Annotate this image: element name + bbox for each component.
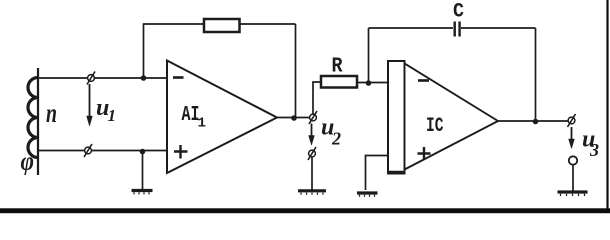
node u1 label xyxy=(96,95,116,125)
svg-text:φ: φ xyxy=(21,147,35,176)
wire u2 bottom to ground xyxy=(311,158,313,190)
svg-text:1: 1 xyxy=(108,106,117,125)
terminal T4 (node u2 bottom) xyxy=(308,147,316,160)
terminal u3 open circle xyxy=(569,156,577,164)
wire u3 to ground xyxy=(572,165,574,191)
wire cap feedback left vertical xyxy=(368,28,370,83)
op-amp U1 AI1 xyxy=(167,61,277,174)
ground G2 (u2) xyxy=(298,191,326,195)
wire AI1 output xyxy=(277,117,310,119)
op-amp U1 label AI1 xyxy=(182,104,206,132)
wire R to IC minus input xyxy=(357,82,388,84)
junction dot D3 (feedback to output) xyxy=(291,115,297,121)
wire u2 node up to R xyxy=(313,82,321,114)
svg-text:2: 2 xyxy=(331,129,341,149)
junction dot D2 (plus input / ground tap) xyxy=(140,149,146,155)
arrow u3 (voltage arrow down) xyxy=(569,127,575,149)
junction dot D4 (cap feedback tap) xyxy=(366,80,372,86)
wire IC plus input xyxy=(366,156,389,191)
wire top input (coil to AI1 minus) xyxy=(38,77,167,79)
svg-text:C: C xyxy=(453,1,464,24)
junction dot D1 (minus input / feedback) xyxy=(141,75,147,81)
ground G4 (u3) xyxy=(558,192,588,196)
wire feedback top left xyxy=(143,23,204,25)
inductor L1 (coil n) xyxy=(28,68,38,175)
wire cap feedback right vertical xyxy=(535,28,537,122)
terminal T5 (node u3) xyxy=(568,114,576,127)
node u2 label xyxy=(321,115,341,149)
svg-text:IC: IC xyxy=(426,115,444,138)
wire IC output xyxy=(498,120,568,122)
svg-text:n: n xyxy=(46,98,57,128)
wire feedback left vertical xyxy=(143,24,145,78)
ground G1 xyxy=(132,191,153,195)
terminal T2 on bottom input xyxy=(84,144,92,157)
op-amp U2 IC triangle xyxy=(405,64,499,170)
junction dot D5 (cap feedback to output) xyxy=(533,119,539,125)
ground G3 (IC plus) xyxy=(357,193,378,197)
arrow u1 (voltage arrow down) xyxy=(87,84,93,126)
wire cap feedback top right xyxy=(461,27,536,29)
svg-text:3: 3 xyxy=(589,140,599,160)
node u3 label xyxy=(582,127,599,161)
resistor R1 (feedback of AI1) xyxy=(204,19,240,32)
arrow u2 (voltage arrow down) xyxy=(309,124,315,146)
wire feedback top right xyxy=(240,23,296,25)
wire cap feedback top left xyxy=(369,27,454,29)
resistor R2 (R) xyxy=(321,76,357,88)
op-amp U2 input bar xyxy=(388,61,405,174)
wire feedback right vertical xyxy=(295,24,297,118)
svg-text:1: 1 xyxy=(198,116,206,132)
wire bottom input (coil to AI1 plus) xyxy=(38,150,167,152)
terminal T1 on top input xyxy=(87,72,95,85)
capacitor C1 (C) xyxy=(455,22,460,37)
wire AI1 plus to ground xyxy=(142,152,144,190)
terminal T3 (node u2 top) xyxy=(309,111,317,124)
svg-text:R: R xyxy=(332,56,343,79)
